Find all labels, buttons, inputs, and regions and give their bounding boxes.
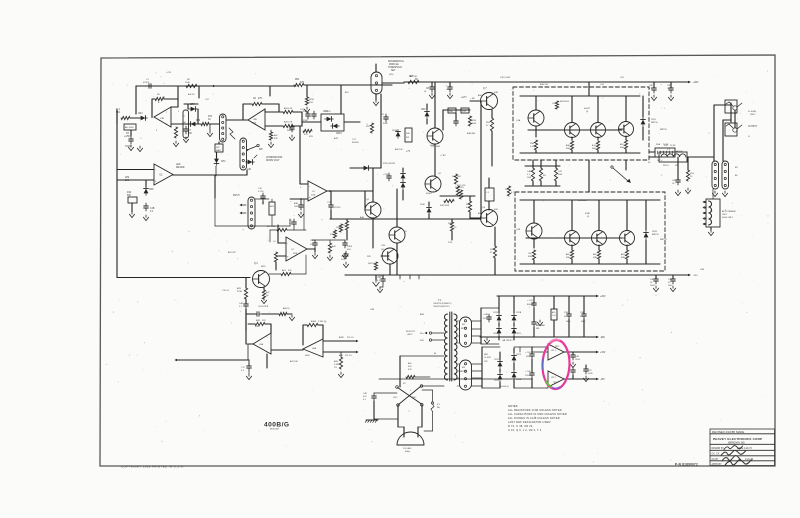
svg-text:70K-MT20 (DOMESTIC): 70K-MT20 (DOMESTIC) [433, 303, 452, 305]
svg-text:MOLT: MOLT [461, 328, 467, 330]
resistor R4F 470 to ground [269, 132, 272, 140]
svg-text:-: - [155, 167, 156, 171]
transistor Q6 [382, 248, 398, 264]
svg-text:220 1%: 220 1% [345, 355, 352, 357]
svg-text:03A: 03A [621, 256, 625, 259]
svg-text:REVISED 4/10/85 MADE: REVISED 4/10/85 MADE [712, 430, 744, 434]
fuse F1 3A [431, 402, 433, 404]
svg-text:AIM: AIM [125, 176, 129, 179]
svg-text:MODULE: MODULE [389, 64, 399, 66]
capacitor C36b below U3A [300, 202, 302, 205]
title block box [710, 429, 775, 466]
ground J3 [375, 94, 377, 100]
svg-text:CR23: CR23 [516, 354, 521, 356]
resistor R27 on rail [408, 80, 419, 83]
svg-text:+ C4F: + C4F [525, 371, 531, 373]
svg-text:INPUT: INPUT [233, 195, 240, 197]
svg-text:7: 7 [166, 112, 167, 114]
wire into U3B [226, 119, 248, 121]
lower emitter resistors [532, 250, 535, 260]
filter cap C34 8000/35 [533, 300, 535, 303]
svg-text:22/25V: 22/25V [334, 207, 341, 209]
svg-text:A3B 6B0: A3B 6B0 [467, 132, 476, 135]
op-amp U4B [286, 237, 307, 261]
dashed box lower output bank [515, 192, 665, 271]
svg-text:ALL RESISTORS 1/4W UNLESS NOT: ALL RESISTORS 1/4W UNLESS NOTED [508, 408, 562, 412]
resistor R4 vertical [174, 127, 177, 138]
capacitor C4G rail [670, 85, 672, 88]
diode pair box CR9 CR10 [321, 114, 344, 131]
wire apex U5A [248, 343, 253, 345]
lower emitter bus [520, 263, 660, 265]
resistor R8 100K [186, 84, 197, 87]
ground big arrow [375, 275, 377, 280]
svg-text:4558: 4558 [252, 123, 256, 125]
connector J5 [712, 161, 719, 189]
ground under C7 [185, 137, 187, 139]
secondary stub wires [457, 320, 460, 322]
capacitor C8 300PF [431, 84, 433, 87]
svg-text:6.8K: 6.8K [466, 207, 471, 209]
svg-text:R47 4.7K: R47 4.7K [457, 185, 466, 187]
ground C4FF [344, 253, 346, 255]
ground R4F [270, 142, 272, 144]
svg-text:+ C43: + C43 [525, 352, 531, 354]
regulator VR2 triangle [548, 371, 564, 387]
svg-text:C2B: C2B [446, 89, 451, 91]
svg-text:A5B: A5B [566, 144, 571, 147]
svg-text:2N1F: 2N1F [652, 231, 658, 233]
secondary connector M2 [460, 317, 472, 347]
svg-text:47K: 47K [408, 369, 412, 371]
svg-text:0/50: 0/50 [347, 249, 351, 251]
svg-text:C4C: C4C [558, 171, 563, 173]
svg-text:8000/35: 8000/35 [527, 304, 535, 306]
AC plug dome [397, 432, 424, 445]
resistor R40b [328, 243, 331, 253]
svg-text:A7B: A7B [334, 137, 339, 140]
rectifier diode CR18 [497, 316, 502, 321]
transformer T1 core [449, 312, 451, 381]
svg-text:+26V: +26V [600, 296, 606, 298]
wire U3A inputs [300, 183, 308, 185]
op-amp U6A mirrored [303, 339, 323, 357]
resistor R42 1K6 [454, 174, 457, 184]
AC plug prongs [403, 427, 405, 437]
capacitor C7 [185, 126, 187, 129]
svg-text:CR22: CR22 [494, 359, 499, 361]
capacitor C30 electrolytic [388, 173, 390, 176]
svg-text:R 72, C 48, CR 24,: R 72, C 48, CR 24, [508, 424, 534, 428]
filter cap C35 [533, 319, 535, 322]
svg-text:R78 0.56/1W: R78 0.56/1W [383, 163, 395, 165]
svg-text:VR.1: VR.1 [551, 350, 557, 352]
svg-text:455B: 455B [305, 355, 310, 357]
svg-text:70K-MT30 (EXPORT): 70K-MT30 (EXPORT) [433, 306, 450, 308]
primary bottom wire [421, 385, 444, 387]
svg-text:C4.T: C4.T [300, 109, 305, 111]
arrow out upper [323, 340, 356, 342]
resistor R70 2K4 [345, 221, 348, 230]
svg-text:C3B: C3B [370, 309, 375, 311]
resistor R17 47K feedback [252, 102, 262, 105]
svg-text:100R: 100R [650, 285, 655, 287]
svg-text:220/35: 220/35 [525, 375, 531, 377]
svg-text:U5A: U5A [259, 343, 264, 346]
output jack S3 body [725, 100, 737, 113]
transistor Q5 [389, 227, 405, 243]
capacitor C29 [345, 251, 347, 254]
svg-text:R44 4/70: R44 4/70 [455, 187, 464, 189]
lower base bus [526, 237, 622, 239]
svg-text:C4FF: C4FF [347, 246, 353, 248]
top supply rail +26V [404, 81, 688, 83]
emitter resistor RE3 [596, 141, 599, 150]
resistor R160 box [269, 202, 275, 215]
resistor R22 10 [262, 290, 265, 299]
ground R54 [687, 188, 689, 190]
svg-text:47K: 47K [262, 320, 266, 322]
wire between banks [588, 160, 590, 192]
transistor Q10 [591, 123, 606, 138]
resistor R20 1K [279, 312, 287, 315]
capacitor C1 470PF [146, 85, 149, 87]
resistor R55 [406, 375, 415, 378]
ground pot [130, 145, 132, 147]
lower bank top bus [520, 199, 660, 201]
svg-text:0/50: 0/50 [310, 244, 314, 246]
svg-text:47B: 47B [309, 136, 313, 138]
capacitor C17 [248, 363, 250, 366]
ground C36b [300, 212, 302, 214]
rectifier diode CR21b [512, 329, 517, 334]
svg-text:A4B: A4B [360, 216, 365, 219]
svg-text:MJ15024: MJ15024 [560, 101, 570, 103]
svg-text:1 03A: 1 03A [530, 145, 536, 148]
svg-text:60Hz: 60Hz [405, 451, 410, 453]
wire C17 left arrow [177, 359, 249, 361]
diode CR2 [191, 122, 196, 127]
svg-text:2N1B: 2N1B [392, 130, 398, 132]
capacitor C40 [677, 177, 679, 180]
svg-text:CR1: CR1 [138, 113, 143, 115]
svg-text:P-N 81890072: P-N 81890072 [675, 462, 698, 466]
svg-text:C7.T: C7.T [287, 127, 292, 129]
svg-text:A3B: A3B [294, 202, 299, 205]
ground R27c [340, 372, 342, 374]
svg-text:A2BF: A2BF [311, 320, 317, 323]
wire +15V out [564, 351, 596, 353]
resistor R9 1M [155, 97, 164, 100]
svg-text:+ C34: + C34 [527, 300, 533, 302]
svg-text:+.3B: +.3B [470, 98, 475, 100]
svg-text:C47: C47 [588, 370, 592, 372]
svg-text:L2D: L2D [247, 169, 252, 171]
op-amp U1B mirrored [154, 107, 171, 127]
svg-text:+C2F: +C2F [166, 72, 172, 74]
transformer secondary winding [454, 314, 457, 380]
bias line [330, 218, 481, 220]
svg-text:A27 6B: A27 6B [410, 75, 417, 78]
ground Q3 emitter [263, 298, 265, 300]
output jack S4 [733, 128, 737, 132]
wires VAS [372, 168, 374, 202]
capacitor C28 [449, 84, 451, 87]
upper bank base bus [528, 129, 622, 131]
voltage selector switch X [398, 388, 422, 405]
svg-text:0.1: 0.1 [289, 223, 292, 225]
svg-text:MR750: MR750 [652, 234, 659, 236]
svg-text:43061: 43061 [430, 145, 437, 147]
svg-text:A2BF: A2BF [339, 336, 345, 339]
svg-text:400G ONLY: 400G ONLY [722, 217, 734, 219]
lightning squiggle [229, 128, 235, 139]
capacitor C12 [313, 111, 315, 114]
capacitor C31 box [461, 108, 469, 113]
diode CR6 [425, 112, 430, 117]
svg-text:CP4: CP4 [221, 161, 226, 163]
ground under R14 [131, 212, 133, 214]
left rail vertical [116, 110, 118, 278]
resistor R19b 4.7K [265, 125, 283, 127]
wire from input section up [214, 198, 216, 226]
capacitor C7T electrolytic [291, 124, 293, 127]
capacitor C18 [245, 301, 247, 304]
svg-text:R46 220K: R46 220K [440, 205, 450, 207]
resistor R52 small [305, 97, 308, 105]
inductor L2 with resistor box [659, 152, 687, 162]
svg-text:2-21-79: 2-21-79 [745, 459, 754, 461]
svg-text:100P: 100P [294, 206, 299, 208]
wire LED driver output [173, 174, 247, 176]
wire top feedback bus [136, 85, 296, 87]
svg-text:EXPORT: EXPORT [406, 331, 415, 333]
ground C17 [248, 374, 250, 376]
resistor R54 10 [686, 170, 689, 181]
svg-text:+7V: +7V [406, 151, 411, 153]
transistor Q4 [365, 202, 381, 218]
dashed box upper output bank [513, 87, 649, 160]
scan speckle noise [106, 67, 769, 463]
switch lever [247, 146, 257, 150]
svg-text:220 1%: 220 1% [347, 337, 354, 339]
svg-text:+C3B: +C3B [483, 314, 489, 316]
svg-text:ALL DIODES IN 4148 UNLESS NOT: ALL DIODES IN 4148 UNLESS NOTED [508, 416, 560, 420]
capacitor C39 [568, 311, 570, 314]
svg-text:+1/50: +1/50 [124, 136, 130, 138]
diode CR21 lower box [644, 233, 649, 238]
rectifier diode CR19 [512, 316, 517, 321]
svg-text:MODS VOLT: MODS VOLT [266, 160, 280, 162]
svg-text:434F: 434F [585, 213, 591, 215]
junction vertical [340, 85, 342, 114]
resistor R56 470 [490, 118, 493, 131]
svg-text:DIFFERENTIAL: DIFFERENTIAL [388, 60, 405, 63]
capacitor C4b 0.1 [293, 219, 295, 222]
svg-text:MPS: MPS [261, 266, 266, 268]
signature ck by [722, 455, 741, 461]
resistor R44b [456, 186, 459, 195]
transistor Q12 driver in box [526, 223, 542, 239]
ground J5 [714, 191, 716, 193]
svg-text:C4B: C4B [255, 326, 260, 328]
wire U5A to U6A [271, 349, 303, 351]
svg-text:160Y: 160Y [668, 285, 673, 287]
resistor R34 vertical [468, 116, 471, 126]
svg-text:CR21: CR21 [516, 333, 521, 335]
svg-text:4.7/50: 4.7/50 [258, 191, 263, 193]
resistor R24 5.36K feedback [307, 323, 318, 326]
svg-text:1%: 1% [334, 367, 337, 369]
resistor R49b 10 [450, 222, 453, 231]
emitter resistor RE4 [624, 140, 627, 149]
lower rail wire [370, 274, 688, 276]
svg-text:-: - [287, 241, 288, 245]
svg-text:470PF: 470PF [143, 82, 150, 84]
svg-text:LAST REF DESIGNATOR USED:: LAST REF DESIGNATOR USED: [508, 420, 552, 424]
svg-text:47K: 47K [288, 270, 292, 272]
svg-text:50/35: 50/35 [588, 373, 593, 375]
svg-text:03A: 03A [593, 256, 597, 259]
svg-text:1: 1 [267, 337, 268, 339]
svg-text:+7 BV: +7 BV [440, 155, 446, 157]
signature appr by [725, 460, 752, 466]
ground C36 [379, 287, 381, 289]
signature ck ck [721, 450, 746, 455]
resistor R48 6.8K [468, 201, 471, 212]
resistor R73 100K [339, 224, 342, 232]
junction vertical right of U3B [301, 112, 303, 126]
svg-text:R53 4: R53 4 [663, 165, 669, 167]
ground C40 [677, 190, 679, 192]
svg-text:SET: SET [391, 70, 396, 72]
svg-text:R42 1.6K: R42 1.6K [452, 176, 461, 178]
svg-text:MERIDIAN, MS.: MERIDIAN, MS. [728, 442, 746, 445]
svg-text:+C30: +C30 [383, 174, 389, 176]
svg-text:Q1F: Q1F [481, 207, 486, 209]
svg-text:C1B: C1B [150, 208, 155, 210]
capacitor C48 decoupling [572, 367, 574, 370]
wire J3 to bus [375, 64, 377, 72]
svg-text:S₃ 400B: S₃ 400B [748, 111, 756, 113]
svg-text:5.36K: 5.36K [334, 364, 340, 366]
capacitor C40b [583, 311, 585, 314]
filter cap C44 220/35 [531, 370, 533, 373]
lower rectifier diode CR25 [512, 373, 517, 378]
svg-text:HN2: HN2 [484, 354, 488, 356]
wires input to U3 stage [255, 198, 269, 200]
svg-text:DIP: DIP [216, 147, 220, 149]
capacitor C4H rail2 [655, 276, 657, 279]
ground C38 [486, 338, 488, 340]
svg-text:R4C: R4C [490, 249, 495, 251]
capacitor C4F rail [653, 85, 655, 88]
wire U3A output [327, 190, 373, 192]
svg-text:-26V: -26V [693, 275, 698, 277]
lower rectifier diode CR23 [512, 356, 517, 361]
svg-text:R51: R51 [295, 79, 300, 81]
svg-text:C15 0.1: C15 0.1 [222, 290, 230, 292]
lower rectifier diode CR22 [498, 362, 503, 367]
svg-text:A25 10K: A25 10K [290, 360, 298, 363]
connector J6 [722, 161, 729, 189]
svg-text:GA TRI NC: GA TRI NC [502, 339, 513, 342]
upper bank emitter bus [520, 152, 640, 154]
svg-text:4003T: 4003T [584, 108, 591, 110]
bus y275 left extension [345, 274, 372, 276]
svg-text:A2B 4.7B: A2B 4.7B [284, 121, 293, 124]
resistor small R57 [555, 101, 558, 109]
svg-text:VR 2: VR 2 [551, 377, 557, 379]
svg-text:C4F OL3W: C4F OL3W [500, 77, 510, 79]
bias rail vertical to drivers [480, 101, 482, 218]
ground under RT1 [209, 131, 211, 133]
wire L2 to jack node [687, 156, 714, 158]
svg-text:MR751: MR751 [660, 239, 667, 241]
svg-text:NOTES: NOTES [508, 404, 518, 408]
svg-text:AUTOTRANSF: AUTOTRANSF [722, 210, 737, 213]
svg-text:S₄: S₄ [748, 136, 750, 138]
drawing border frame [100, 55, 775, 466]
svg-text:1.50: 1.50 [552, 315, 556, 317]
svg-text:5.1: 5.1 [239, 306, 242, 308]
svg-text:+15V: +15V [600, 352, 606, 354]
svg-text:C2B: C2B [381, 245, 386, 247]
svg-text:MR750: MR750 [651, 122, 658, 124]
capacitor C19 22/25 [330, 202, 332, 205]
svg-text:(26V): (26V) [389, 74, 394, 76]
svg-text:OUTPUT: OUTPUT [748, 126, 758, 128]
svg-text:43B: 43B [494, 209, 498, 211]
output takeoff arrow [613, 168, 628, 181]
svg-text:CR1B: CR1B [516, 312, 522, 314]
diode CR11 [396, 132, 401, 137]
svg-text:ALL CAPACITORS IN MFD UNLESS: ALL CAPACITORS IN MFD UNLESS NOTED [508, 412, 567, 416]
svg-text:THRESHOLD: THRESHOLD [388, 67, 402, 69]
svg-text:03A: 03A [566, 256, 570, 259]
capacitor C4F KVL [373, 393, 375, 396]
signature drawn by [724, 446, 743, 450]
transistor Q9 [565, 123, 580, 138]
transistor Q15 [620, 231, 635, 246]
ground C28 [449, 93, 451, 95]
svg-text:22.3K: 22.3K [670, 145, 676, 147]
resistor R47 20K box [183, 110, 189, 138]
svg-text:ONLY: ONLY [750, 114, 756, 116]
diode CR20 upper box [641, 120, 646, 125]
svg-text:A5B: A5B [420, 313, 425, 316]
svg-text:C4B: C4B [527, 171, 532, 173]
resistor R16B under U4B [274, 252, 277, 262]
LED L2D [248, 160, 253, 165]
wire long bias run [117, 277, 250, 279]
svg-text:Q1A: Q1A [516, 119, 521, 122]
svg-text:(N-4003 (4): (N-4003 (4) [500, 386, 509, 388]
svg-text:PEAVEY ELECTRONICS CORP: PEAVEY ELECTRONICS CORP [713, 437, 762, 441]
connector J3 differential [371, 72, 382, 94]
svg-text:-: - [309, 184, 310, 188]
svg-text:1R/50: 1R/50 [575, 359, 580, 361]
filter cap C43 220 [531, 351, 533, 354]
svg-text:OL 32B: OL 32B [484, 357, 491, 359]
svg-text:A2B: A2B [256, 319, 261, 322]
resistor R18 6.2K [265, 111, 283, 113]
svg-text:MODULE: MODULE [270, 429, 280, 431]
resistor R21 47K feedback [255, 322, 265, 325]
resistor R37 47K [370, 123, 373, 133]
ground C20 [314, 253, 316, 255]
svg-text:1R2: 1R2 [484, 361, 488, 363]
